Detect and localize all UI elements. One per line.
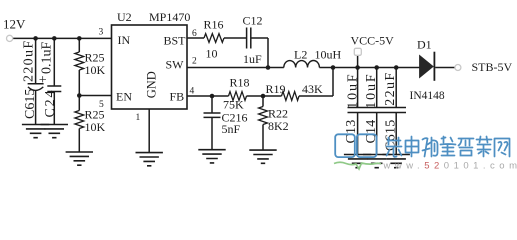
svg-text:10uH: 10uH [315,48,342,62]
svg-text:VCC-5V: VCC-5V [351,34,395,48]
svg-text:22uF: 22uF [383,71,398,105]
svg-text:STB-5V: STB-5V [472,60,513,74]
svg-text:U2: U2 [117,10,132,24]
svg-text:SW: SW [166,58,185,72]
svg-text:C615: C615 [23,89,38,119]
svg-text:C12: C12 [243,14,263,28]
svg-text:10uF: 10uF [364,72,379,108]
svg-text:D1: D1 [417,38,432,52]
svg-text:12V: 12V [3,17,26,32]
svg-text:L2: L2 [294,48,307,62]
svg-text:75K: 75K [223,98,244,112]
svg-text:10K: 10K [85,63,106,77]
svg-text:1uF: 1uF [243,52,262,66]
svg-text:10uF: 10uF [345,72,360,108]
svg-text:C24: C24 [43,89,58,118]
svg-text:R16: R16 [204,18,224,32]
svg-text:4: 4 [190,87,195,97]
svg-text:6: 6 [192,29,197,39]
svg-text:220uF: 220uF [22,40,37,82]
svg-text:+: + [39,73,47,88]
svg-text:8K2: 8K2 [268,119,289,133]
svg-text:www.520101.com: www.520101.com [383,161,517,172]
svg-text:1: 1 [136,113,141,123]
svg-text:GND: GND [145,71,159,98]
svg-text:EN: EN [116,90,132,104]
svg-text:R18: R18 [230,76,250,90]
svg-text:0.1uF: 0.1uF [39,42,54,75]
svg-text:MP1470: MP1470 [149,10,190,24]
svg-text:R19: R19 [266,82,286,96]
svg-text:5nF: 5nF [222,122,241,136]
svg-text:2: 2 [192,57,197,67]
svg-text:IN4148: IN4148 [410,90,445,102]
svg-text:43K: 43K [302,82,323,96]
svg-text:10K: 10K [85,120,106,134]
svg-text:FB: FB [170,90,185,104]
svg-text:BST: BST [164,34,187,48]
svg-text:3: 3 [99,28,104,38]
svg-text:IN: IN [118,33,131,47]
svg-text:10: 10 [206,47,218,61]
